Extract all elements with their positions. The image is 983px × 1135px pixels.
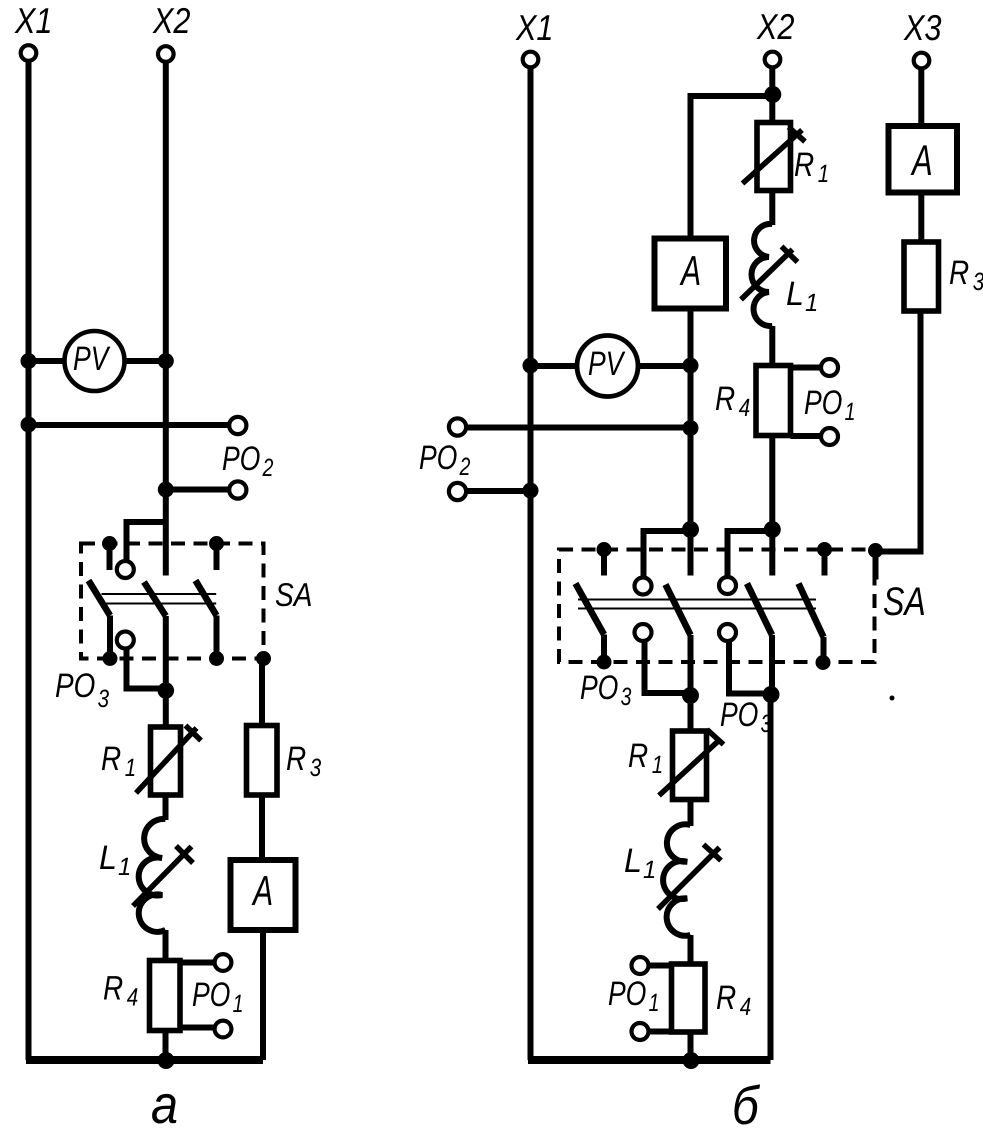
label X1 (a) bbox=[14, 8, 49, 33]
switch SA pole3 blade (b) bbox=[747, 584, 772, 636]
node: SA pole1 bottom dot (b) bbox=[597, 655, 612, 670]
wire: PO1 upper jack wire (lower b) bbox=[649, 963, 672, 969]
label R3 (a) bbox=[287, 747, 321, 777]
wire: SA pole1 top stub (b) bbox=[601, 551, 607, 576]
node: SA pole4 bottom dot (b) bbox=[816, 655, 831, 670]
inductor L1 coil (lower b) bbox=[663, 824, 690, 935]
label PO1 (b lower) bbox=[609, 981, 658, 1011]
label R3 (b) bbox=[950, 261, 983, 291]
terminal PO3 lower jack circle (left pair b) bbox=[635, 624, 652, 641]
wire: X2 step to PO3 upper jack bbox=[127, 522, 166, 561]
node: R4 branch step junction bbox=[764, 521, 781, 538]
node: pole2/PO3 junction bbox=[158, 682, 175, 699]
switch SA linkage bar line1 (b) bbox=[578, 599, 816, 601]
ammeter A body bbox=[231, 860, 296, 930]
resistor R1 body (lower b) bbox=[673, 731, 707, 800]
wire: SA pole3 lower stub bbox=[214, 616, 220, 659]
node: bottom bus junction bbox=[158, 1052, 175, 1069]
terminal PO1 upper jack circle bbox=[215, 954, 232, 971]
switch SA pole1 blade (b) bbox=[576, 584, 605, 635]
resistor R4 body (upper) bbox=[756, 366, 791, 436]
label PO3 (b left) bbox=[581, 675, 631, 705]
wire: X1 vertical bus bbox=[26, 62, 32, 1061]
terminal PO3 lower jack circle (right pair b) bbox=[719, 624, 736, 641]
switch SA linkage bar line2 bbox=[102, 603, 217, 605]
terminal X1 circle bbox=[21, 45, 37, 61]
wire: PO3 lower jack to main line bbox=[127, 649, 165, 689]
node: SA pole3 bottom dot bbox=[209, 651, 224, 666]
switch SA pole2 blade bbox=[144, 582, 166, 616]
node: X1/PV junction bbox=[21, 353, 37, 369]
inductor L1 coil (upper) bbox=[752, 224, 773, 326]
terminal PO3 upper jack circle bbox=[117, 561, 134, 578]
wire: PO1 lower jack wire bbox=[180, 1025, 215, 1031]
terminal PO1 upper jack circle (b upper) bbox=[821, 359, 838, 376]
wire: X3 to ammeter bbox=[918, 69, 924, 127]
inductor L1 arrow crossbar bbox=[176, 846, 193, 863]
label X3 (b) bbox=[903, 15, 941, 41]
label L1 (a) bbox=[100, 846, 129, 875]
inductor L1 variable arrow (lower b) bbox=[658, 848, 720, 910]
wire: SA pole3 lower line (b) bbox=[769, 635, 775, 695]
resistor R3 body (b) bbox=[904, 242, 939, 311]
switch SA pole2 blade (b) bbox=[666, 585, 691, 636]
label PO1 (a) bbox=[193, 982, 242, 1012]
wire: PO2 upper jack wire bbox=[29, 422, 230, 428]
ammeter A body (middle branch) bbox=[655, 239, 727, 309]
node: X2/PO2 junction bbox=[158, 482, 174, 498]
wire: PO2 lower jack wire bbox=[166, 487, 229, 493]
terminal PO2 lower jack circle (b) bbox=[449, 483, 466, 500]
label R4 (b lower) bbox=[717, 986, 751, 1015]
label X2 (a) bbox=[152, 8, 190, 33]
resistor R4 body bbox=[150, 961, 181, 1031]
terminal PO3 upper jack circle (left pair b) bbox=[635, 578, 652, 595]
label letter b bbox=[734, 1084, 760, 1124]
inductor L1 coil bbox=[139, 819, 166, 932]
terminal PO2 upper jack circle bbox=[229, 417, 246, 434]
wire: SA pole1 lower stub bbox=[107, 616, 113, 659]
inductor L1 arrow crossbar (lower b) bbox=[704, 845, 722, 861]
wire: PV left lead bbox=[29, 358, 65, 364]
label PO3 (a) bbox=[56, 673, 109, 707]
wire: X2 vertical bus bbox=[163, 63, 169, 576]
node: SA pole1 top terminal dot bbox=[102, 536, 117, 551]
wire: step to PO3 upper jack (left pair) bbox=[644, 531, 691, 578]
terminal PO1 upper jack circle (lower b) bbox=[632, 957, 649, 974]
wire: SA pole3 top stub bbox=[214, 545, 220, 570]
wire: R1 to L1 bbox=[163, 795, 169, 820]
switch SA dashed box bbox=[81, 544, 264, 659]
resistor R1 arrow crossbar (lower b) bbox=[707, 730, 724, 745]
wire: L1 to R4 (lower b) bbox=[688, 935, 694, 964]
node: X1/PO2 junction (b) bbox=[523, 483, 539, 499]
label L1 (b lower) bbox=[625, 849, 654, 878]
wire: bottom bus bbox=[26, 1056, 263, 1064]
wire: R4 to SA (upper) bbox=[769, 436, 775, 576]
switch SA dashed box (b) bbox=[559, 550, 875, 663]
label X1 (b) bbox=[515, 15, 550, 40]
label PO3 (b right) bbox=[721, 702, 771, 732]
terminal PO2 lower jack circle bbox=[229, 481, 246, 498]
node: SA corner terminal dot (b) bbox=[868, 543, 883, 558]
voltmeter PV circle bbox=[65, 331, 125, 391]
wire: SA corner stub (b) bbox=[873, 552, 879, 580]
node: SA pole1 top terminal dot (b) bbox=[597, 542, 612, 557]
ammeter A body (X3 branch) bbox=[889, 126, 958, 193]
label L1 (b upper) bbox=[787, 282, 816, 311]
terminal X2 circle (b) bbox=[765, 52, 781, 68]
label letter a bbox=[152, 1094, 176, 1124]
node: X1/PO2 junction bbox=[21, 417, 37, 433]
wire: PO1 upper jack wire (b upper) bbox=[791, 365, 822, 371]
wire: junction to ammeter branch bbox=[691, 96, 773, 239]
wire: SA pole1 lower stub (b) bbox=[601, 635, 607, 663]
label R4 (a) bbox=[104, 976, 137, 1005]
label PV (a) bbox=[74, 347, 111, 370]
terminal X2 circle bbox=[158, 46, 174, 62]
label A (b X3) bbox=[911, 145, 932, 175]
wire: PV right lead bbox=[125, 358, 166, 364]
wire: pole3 branch down to bottom bus bbox=[768, 695, 774, 1061]
inductor L1 variable arrow bbox=[133, 847, 192, 907]
inductor L1 variable arrow (upper) bbox=[741, 250, 793, 300]
label X2 (b) bbox=[756, 14, 794, 39]
wire: PO1 lower jack wire (lower b) bbox=[649, 1029, 672, 1035]
node: pole2/PO3 junction (b) bbox=[682, 687, 699, 704]
wire: PV right lead (b) bbox=[638, 363, 691, 369]
RIGHT DIAGRAM b bbox=[420, 14, 983, 1125]
terminal PO3 lower jack circle bbox=[117, 632, 134, 649]
node: mid/PV junction (b) bbox=[683, 358, 699, 374]
terminal PO1 lower jack circle (lower b) bbox=[632, 1023, 649, 1040]
wire: R1 to L1 (upper) bbox=[769, 191, 775, 226]
terminal PO1 lower jack circle (b upper) bbox=[821, 428, 838, 445]
wire: R4 to bottom bus bbox=[163, 1031, 169, 1061]
resistor R1 arrow crossbar bbox=[186, 726, 202, 741]
node: X2/PV junction bbox=[158, 353, 174, 369]
resistor R1 body (upper) bbox=[757, 123, 791, 191]
wire: PO2 upper jack wire (b) bbox=[466, 425, 691, 431]
node: X2 branch junction bbox=[764, 86, 781, 103]
wire: ammeter A to bottom bus bbox=[260, 930, 266, 1060]
resistor R1 variable arrow (lower b) bbox=[659, 739, 721, 796]
node: SA box corner / R3 branch dot bbox=[256, 651, 271, 666]
node: pole3/PO3 junction (b) bbox=[763, 686, 780, 703]
wire: ammeter to PV junction bbox=[688, 309, 694, 530]
switch SA linkage bar line2 (b) bbox=[578, 608, 816, 610]
label R1 (b lower) bbox=[629, 744, 662, 773]
label A (a) bbox=[252, 876, 272, 905]
node: SA pole4 top terminal dot (b) bbox=[817, 542, 832, 557]
node: X1/PV junction (b) bbox=[523, 358, 539, 374]
node: SA pole3 top terminal dot bbox=[209, 536, 224, 551]
label PO1 (b upper) bbox=[805, 390, 854, 420]
terminal X3 circle bbox=[914, 53, 930, 69]
wire: X1 vertical bus (b) bbox=[528, 68, 534, 1060]
wire: PO3 lower jack to pole2 line (b) bbox=[645, 641, 689, 693]
wire: X2 lead to junction bbox=[769, 67, 775, 123]
resistor R1 arrow crossbar (upper) bbox=[789, 127, 806, 142]
wire: mid branch into SA bbox=[688, 530, 694, 576]
terminal PO3 upper jack circle (right pair b) bbox=[719, 577, 736, 594]
wire: SA pole2 lower line (b) bbox=[688, 635, 694, 731]
wire: ammeter to R3 (b) bbox=[918, 193, 924, 243]
label A (b mid) bbox=[680, 256, 700, 285]
terminal X1 circle (b) bbox=[523, 52, 539, 68]
resistor R1 variable arrow bbox=[136, 728, 197, 793]
label R1 (b upper) bbox=[795, 153, 828, 182]
label SA (a) bbox=[276, 583, 311, 606]
voltmeter PV circle (b) bbox=[577, 336, 638, 397]
node: mid branch step junction bbox=[682, 521, 699, 538]
wire: PO3 lower jack to pole3 line (b) bbox=[729, 641, 769, 694]
wire: R3 branch upper lead bbox=[259, 659, 265, 726]
terminal PO2 upper jack circle (b) bbox=[449, 418, 466, 435]
wire: PV left lead (b) bbox=[531, 363, 578, 369]
wire: SA pole2 lower line bbox=[163, 616, 169, 727]
node: mid/PO2 junction (b) bbox=[683, 420, 699, 436]
wire: L1 to R4 bbox=[163, 930, 169, 961]
wire: PO2 lower jack wire (b) bbox=[466, 488, 531, 494]
label PV (b) bbox=[589, 352, 626, 375]
wire: PO1 lower jack wire (b upper) bbox=[791, 433, 822, 439]
node: bottom bus junction (b) bbox=[683, 1052, 700, 1069]
wire: R4 to bottom bus (b) bbox=[688, 1032, 694, 1060]
wire: step to PO3 upper jack (right pair) bbox=[728, 531, 773, 577]
LEFT DIAGRAM a bbox=[14, 8, 321, 1124]
switch SA linkage bar line1 bbox=[102, 593, 217, 595]
resistor R4 body (lower b) bbox=[672, 964, 706, 1032]
label SA (b) bbox=[884, 587, 924, 615]
resistor R1 variable arrow (upper) bbox=[743, 130, 803, 184]
wire: L1 to R4 (upper) bbox=[769, 326, 775, 366]
wire: SA pole4 top stub (b) bbox=[822, 551, 828, 576]
inductor L1 arrow crossbar (upper) bbox=[782, 247, 798, 263]
switch SA pole1 blade bbox=[89, 581, 111, 616]
node: SA pole1 bottom dot bbox=[103, 651, 118, 666]
label R4 (b upper) bbox=[716, 387, 750, 416]
wire: PO1 upper jack wire bbox=[180, 960, 215, 966]
wire: R3 down to SA corner bbox=[876, 311, 921, 552]
wire: bottom bus (b) bbox=[528, 1056, 771, 1064]
label PO2 (b) bbox=[420, 445, 470, 475]
label R1 (a) bbox=[102, 747, 134, 776]
terminal PO1 lower jack circle bbox=[215, 1021, 232, 1038]
label PO2 (a) bbox=[223, 446, 273, 476]
wire: SA pole1 top stub bbox=[107, 545, 113, 570]
switch SA pole4 blade (b) bbox=[799, 584, 824, 638]
switch SA pole3 blade bbox=[196, 581, 217, 616]
resistor R3 body bbox=[247, 726, 278, 796]
resistor R1 body bbox=[151, 727, 181, 795]
wire: R1 to L1 (lower b) bbox=[688, 800, 694, 827]
wire: R3 to ammeter A bbox=[259, 795, 265, 860]
wire: SA pole4 lower stub (b) bbox=[821, 637, 827, 663]
speck artifact bbox=[890, 696, 895, 701]
